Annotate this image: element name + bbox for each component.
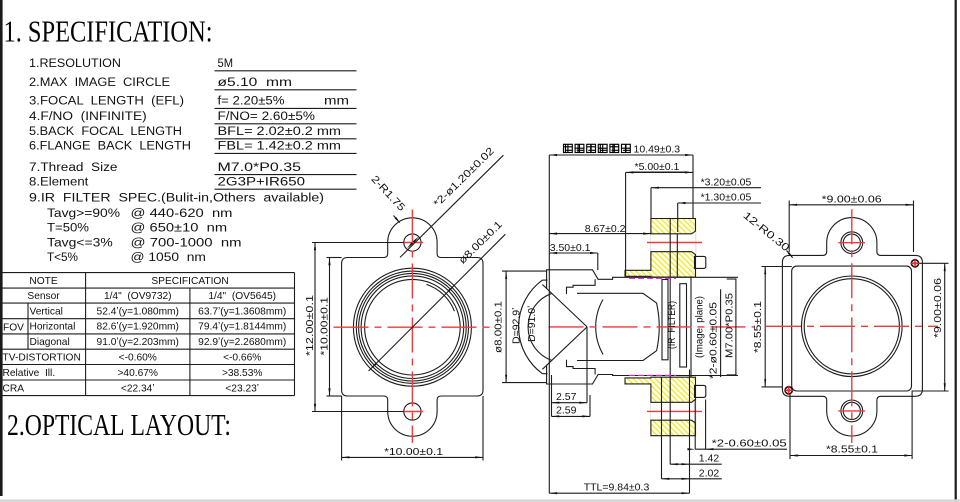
section: ø8 dim line (left): [502, 270, 547, 272]
dim 1.42: [689, 370, 691, 494]
svg-text:Horizontal: Horizontal: [30, 322, 76, 333]
svg-text:*2-0.60±0.05: *2-0.60±0.05: [712, 437, 787, 449]
svg-text:5.BACK FOCAL LENGTH: 5.BACK FOCAL LENGTH: [29, 126, 182, 138]
svg-text:M7.00*P0.35: M7.00*P0.35: [724, 293, 736, 358]
section: retainer seam upper: [567, 279, 596, 294]
dimension *10.00±0.1 (front left inner): [327, 257, 342, 259]
front view inner arc detail: [426, 284, 454, 311]
svg-text:92.9ʼ(y=2.2680mm): 92.9ʼ(y=2.2680mm): [198, 337, 286, 348]
rear view big circle: [802, 276, 903, 377]
svg-text:Relative Ill.: Relative Ill.: [3, 368, 56, 379]
svg-text:Sensor: Sensor: [27, 291, 60, 302]
dim M7 line: [735, 279, 737, 375]
chinese text 镜头锁附高度 (drawn): [564, 144, 573, 152]
svg-text:Tavg>=90%: Tavg>=90%: [47, 208, 120, 220]
front view hole crosshairs: [403, 242, 424, 244]
svg-text:D=91.0ʼ: D=91.0ʼ: [526, 306, 538, 342]
svg-text:1/4" (OV5645): 1/4" (OV5645): [208, 291, 276, 302]
svg-text:>40.67%: >40.67%: [117, 368, 158, 379]
dim 3.50±0.1: [597, 253, 599, 270]
section: holder upper hole (white): [650, 231, 696, 255]
dim *5.00±0.1: [625, 172, 627, 276]
section: holder lower hole (white): [650, 399, 696, 423]
svg-text:f= 2.20±5%: f= 2.20±5%: [218, 96, 285, 108]
svg-text:T=50%: T=50%: [47, 223, 89, 235]
section: holder flange lower block: [625, 377, 696, 436]
rear view outer body with ears: [782, 218, 922, 436]
svg-text:F/NO= 2.60±5%: F/NO= 2.60±5%: [218, 111, 316, 123]
section: retainer seam lower: [567, 360, 596, 375]
svg-text:mm: mm: [324, 96, 349, 108]
section: bore upper edge: [577, 293, 659, 360]
svg-text:3.50±0.1: 3.50±0.1: [550, 242, 591, 254]
svg-text:5M: 5M: [218, 58, 234, 70]
svg-text:2.MAX IMAGE CIRCLE: 2.MAX IMAGE CIRCLE: [29, 77, 170, 89]
section: lens barrel outline: [547, 252, 691, 403]
svg-text:6.FLANGE BACK LENGTH: 6.FLANGE BACK LENGTH: [29, 141, 191, 153]
spec table: [2, 272, 295, 274]
svg-text:*8.55±0.1: *8.55±0.1: [826, 444, 878, 456]
dim 2.59: [589, 395, 591, 416]
dim 8.67±0.2: [549, 233, 651, 235]
svg-text:FBL= 1.42±0.2 mm: FBL= 1.42±0.2 mm: [218, 141, 342, 153]
dimension *10.00±0.1 (front bottom): [341, 396, 343, 461]
section: middle lens surface arc: [596, 300, 603, 355]
sheet border right: [955, 0, 957, 502]
rear view bottom hole outer: [841, 400, 863, 422]
svg-text:@ 1050 nm: @ 1050 nm: [131, 252, 206, 264]
section: main centerline: [549, 326, 755, 328]
rear view inner square: [792, 266, 912, 391]
section: holder flange upper block: [625, 219, 696, 278]
front view horizontal centerline: [334, 326, 493, 328]
svg-text:*12.00±0.1: *12.00±0.1: [304, 295, 316, 356]
section: flange internal lines: [669, 219, 671, 465]
svg-text:Diagonal: Diagonal: [30, 337, 70, 348]
svg-text:T<5%: T<5%: [47, 252, 78, 264]
rear corner marker bottom-left: [785, 387, 792, 394]
front view body outline: [342, 218, 483, 436]
section: lower hole centerline: [647, 410, 702, 412]
dim *2-0.60±0.05: [694, 400, 696, 450]
sheet border bottom gray strip: [0, 499, 960, 502]
leader *2-ø1.20±0.02: [400, 155, 503, 257]
dim 2.57: [586, 327, 588, 403]
svg-text:>38.53%: >38.53%: [222, 368, 263, 379]
svg-text:63.7ʼ(y=1.3608mm): 63.7ʼ(y=1.3608mm): [198, 307, 286, 318]
svg-text:*10.00±0.1: *10.00±0.1: [384, 446, 443, 458]
front view vertical centerline: [411, 210, 413, 443]
svg-text:2.OPTICAL LAYOUT:: 2.OPTICAL LAYOUT:: [7, 407, 231, 442]
svg-text:1. SPECIFICATION:: 1. SPECIFICATION:: [4, 14, 213, 49]
dimension *12.00±0.1 (front left outer): [312, 242, 404, 244]
dim *9.00±0.06 (rear right): [920, 262, 949, 264]
svg-text:<-0.60%: <-0.60%: [119, 352, 157, 363]
dim TTL=9.84±0.3: [549, 492, 689, 494]
rear view horizontal centerline: [766, 325, 938, 327]
svg-text:@ 650±10 nm: @ 650±10 nm: [131, 223, 228, 235]
svg-text:ø8.00±0.1: ø8.00±0.1: [493, 301, 505, 353]
svg-text:2.59: 2.59: [556, 404, 577, 416]
svg-text:4.F/NO (INFINITE): 4.F/NO (INFINITE): [29, 111, 147, 123]
svg-text:(IR FILTER): (IR FILTER): [666, 301, 678, 349]
diagonal diameter line ø8.00: [369, 234, 506, 371]
section: side protrusion upper: [695, 256, 706, 268]
section: FOV arc D=91.0: [528, 293, 552, 360]
svg-text:<-0.66%: <-0.66%: [223, 352, 261, 363]
svg-text:1/4" (OV9732): 1/4" (OV9732): [104, 291, 172, 302]
section: dome edge stubs: [542, 279, 547, 281]
svg-text:TTL=9.84±0.3: TTL=9.84±0.3: [584, 481, 650, 493]
svg-text:TV-DISTORTION: TV-DISTORTION: [3, 352, 81, 363]
svg-text:*10.00±0.1: *10.00±0.1: [319, 297, 331, 356]
svg-text:8.67±0.2: 8.67±0.2: [585, 223, 626, 235]
svg-text:8.Element: 8.Element: [29, 176, 89, 188]
sheet border left: [0, 0, 3, 496]
section: thread pitch line magenta lower: [629, 374, 676, 376]
front view lens barrel concentric circles: [353, 268, 471, 386]
svg-text:52.4ʼ(y=1.080mm): 52.4ʼ(y=1.080mm): [97, 307, 179, 318]
rear view hole crosshairs: [838, 242, 865, 244]
svg-text:Vertical: Vertical: [30, 307, 63, 318]
svg-text:*5.00±0.1: *5.00±0.1: [635, 161, 680, 173]
svg-text:*1.30±0.05: *1.30±0.05: [701, 192, 752, 204]
svg-text:NOTE: NOTE: [29, 276, 58, 287]
svg-text:10.49±0.3: 10.49±0.3: [634, 144, 681, 156]
svg-text:2G3P+IR650: 2G3P+IR650: [218, 176, 306, 188]
front view top mounting hole: [404, 234, 421, 251]
rear view top hole outer: [841, 232, 863, 254]
dim 2.02: [661, 377, 663, 479]
dim *9.00±0.06 (rear top): [788, 201, 790, 253]
svg-text:82.6ʼ(y=1.920mm): 82.6ʼ(y=1.920mm): [97, 322, 179, 333]
svg-text:SPECIFICATION: SPECIFICATION: [151, 276, 228, 287]
svg-text:1.42: 1.42: [699, 453, 720, 465]
dim *1.30±0.05: [677, 203, 679, 232]
section: image plane strip: [680, 284, 687, 367]
svg-text:<22.34ʼ: <22.34ʼ: [121, 383, 155, 394]
svg-text:FOV: FOV: [3, 323, 24, 334]
svg-text:@ 700-1000 nm: @ 700-1000 nm: [131, 237, 242, 249]
svg-text:<23.23ʼ: <23.23ʼ: [225, 383, 259, 394]
section: side protrusion lower: [695, 385, 706, 397]
section: IR filter: [662, 280, 668, 360]
svg-text:CRA: CRA: [3, 383, 25, 394]
dim *8.55±0.1 (rear left, rotated): [762, 266, 792, 268]
svg-text:2.02: 2.02: [699, 467, 720, 479]
svg-text:1.RESOLUTION: 1.RESOLUTION: [29, 58, 121, 70]
svg-text:M7.0*P0.35: M7.0*P0.35: [218, 162, 302, 174]
section: FOV arc D=92.9: [519, 280, 543, 374]
front view bottom mounting hole: [404, 403, 421, 420]
svg-text:ø5.10 mm: ø5.10 mm: [218, 77, 293, 89]
section: upper hole centerline: [647, 242, 702, 244]
svg-text:(Image plane): (Image plane): [694, 296, 706, 358]
svg-text:3.FOCAL LENGTH (EFL): 3.FOCAL LENGTH (EFL): [29, 96, 184, 108]
svg-text:Tavg<=3%: Tavg<=3%: [47, 237, 113, 249]
svg-text:2.57: 2.57: [556, 391, 577, 403]
dim *8.55±0.1 (rear bottom): [789, 394, 791, 460]
svg-text:BFL= 2.02±0.2 mm: BFL= 2.02±0.2 mm: [218, 126, 342, 138]
rear corner marker top-right: [911, 260, 918, 267]
svg-text:*3.20±0.05: *3.20±0.05: [701, 176, 752, 188]
svg-text:*2-ø0.60±0.05: *2-ø0.60±0.05: [708, 302, 720, 379]
svg-text:*9.00±0.06: *9.00±0.06: [822, 193, 882, 205]
dim *3.20±0.05: [650, 188, 652, 218]
svg-text:*9.00±0.06: *9.00±0.06: [932, 278, 944, 338]
svg-text:7.Thread Size: 7.Thread Size: [29, 162, 118, 174]
dim 10.49 (Chinese label): [548, 155, 550, 493]
section: FOV cone lines: [542, 285, 587, 327]
svg-text:D=92.9ʼ: D=92.9ʼ: [511, 308, 523, 344]
svg-text:9.IR FILTER SPEC.(Bulit-in,O: 9.IR FILTER SPEC.(Bulit-in,Others availa…: [29, 192, 324, 204]
section: thread pitch line magenta upper: [629, 277, 676, 279]
svg-text:91.0ʼ(y=2.203mm): 91.0ʼ(y=2.203mm): [97, 337, 179, 348]
rear view vertical centerline: [851, 209, 853, 443]
svg-text:@ 440-620 nm: @ 440-620 nm: [131, 208, 233, 220]
svg-text:*8.55±0.1: *8.55±0.1: [752, 301, 764, 353]
svg-text:79.4ʼ(y=1.8144mm): 79.4ʼ(y=1.8144mm): [198, 322, 286, 333]
